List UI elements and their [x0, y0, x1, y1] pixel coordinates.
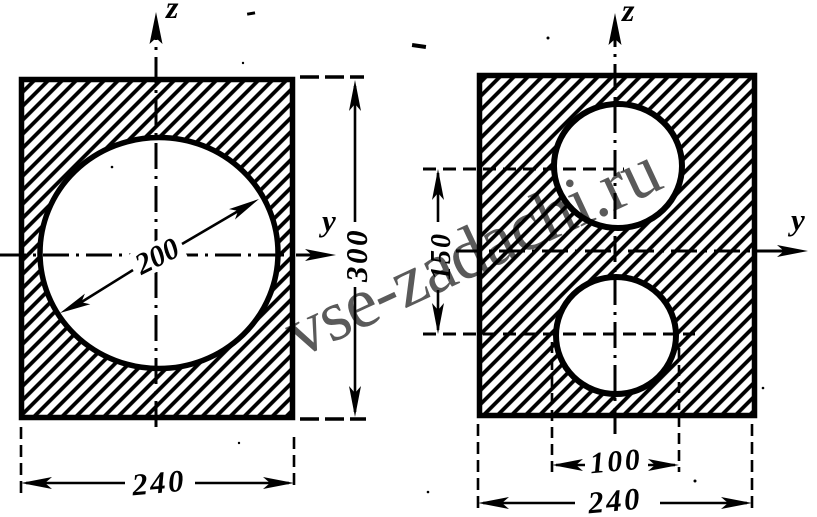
dimension 240 right figure — [478, 424, 752, 517]
diameter leader 200 left figure — [60, 199, 259, 313]
z axis left figure — [150, 0, 180, 427]
dimension 100 right figure — [552, 342, 679, 480]
svg-text:240: 240 — [586, 481, 644, 517]
svg-text:z: z — [621, 0, 635, 28]
dimension 240 left figure — [21, 427, 294, 502]
left plate hatched section with circular hole — [19, 77, 295, 420]
svg-text:100: 100 — [588, 443, 643, 480]
centerline top hole right figure — [423, 168, 624, 171]
y axis right figure — [456, 202, 808, 257]
scan speck marks — [111, 11, 765, 493]
y axis left figure — [0, 203, 336, 261]
z axis right figure — [609, 0, 636, 434]
dimension 300 left figure — [300, 77, 374, 419]
svg-text:z: z — [165, 0, 179, 25]
right plate hatched section with two circular holes — [477, 73, 757, 418]
dimension 150 right figure — [426, 169, 457, 334]
svg-text:240: 240 — [130, 463, 188, 503]
centerline bottom hole right figure — [423, 333, 695, 336]
